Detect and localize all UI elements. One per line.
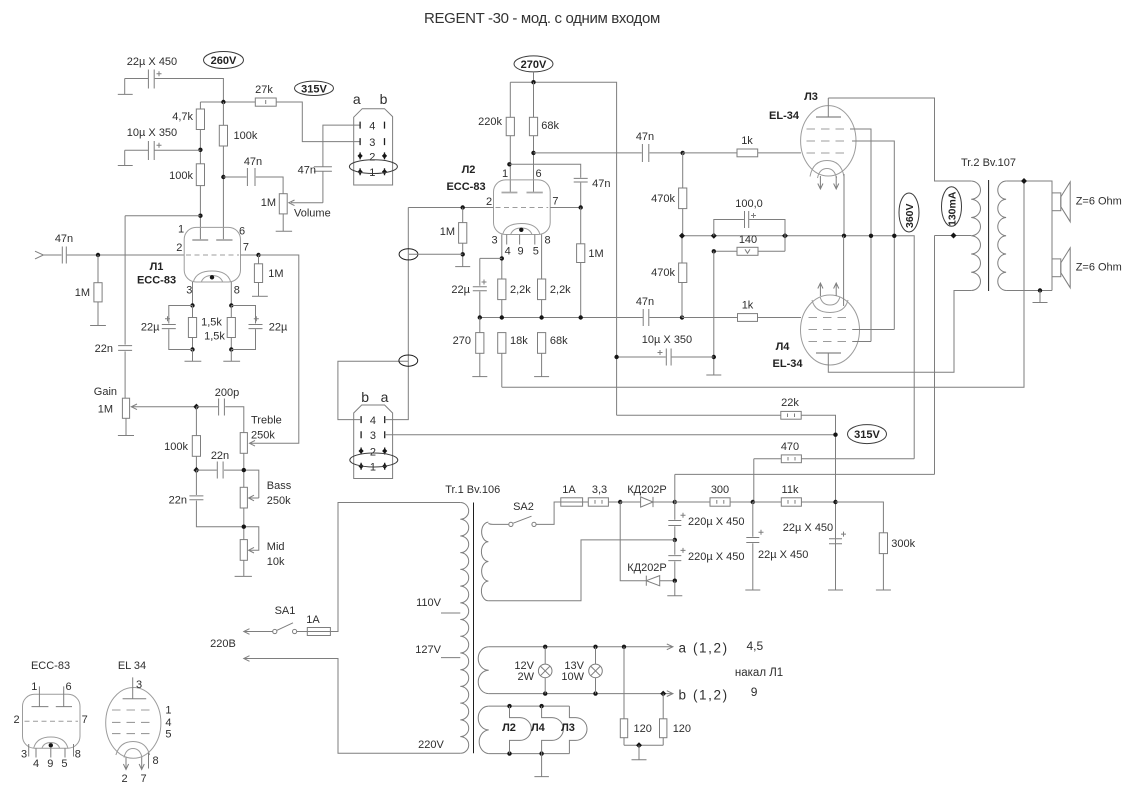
- svg-text:b (1,2): b (1,2): [679, 688, 729, 703]
- spare EL34 heater arrows: [123, 758, 144, 770]
- junction tone mid node: [193, 467, 199, 473]
- svg-text:b: b: [361, 389, 369, 405]
- resistor 100k (left): [196, 164, 204, 186]
- pentode L3 envelope: [801, 106, 856, 176]
- ground for 22u input filter cap: [118, 79, 133, 95]
- junction 47n out: [221, 175, 225, 179]
- ground psu: [667, 581, 682, 596]
- svg-text:Л2: Л2: [502, 722, 516, 734]
- svg-text:2W: 2W: [518, 671, 535, 683]
- svg-text:6: 6: [66, 681, 72, 693]
- wire mains lead 2: [244, 656, 460, 754]
- diode KD202P lower: [646, 576, 659, 586]
- L1 cathode: [194, 271, 231, 282]
- wire bias rail: [682, 236, 914, 459]
- resistor 68k cathode: [541, 353, 543, 376]
- resistor 1M grid2: [258, 255, 260, 296]
- junction doubler in: [618, 500, 622, 504]
- cable ring upper: [399, 249, 418, 260]
- transformer Tr.1 heater winding a/b: [478, 647, 489, 694]
- svg-text:Mid: Mid: [267, 541, 285, 553]
- node 260V: [204, 52, 244, 69]
- svg-text:SA1: SA1: [275, 605, 296, 617]
- wire shield to ring: [409, 253, 463, 255]
- capacitor 22u L2: [473, 258, 487, 317]
- capacitor 10u X 350: [125, 141, 201, 160]
- heater ellipse lower socket: [350, 453, 398, 467]
- pentode L4 envelope: [801, 295, 860, 365]
- junction 260V rail: [221, 100, 225, 104]
- svg-text:7: 7: [243, 242, 249, 254]
- wire L4 g3: [853, 329, 894, 331]
- svg-text:Л2: Л2: [462, 164, 476, 176]
- potentiometer Mid 10k: [240, 540, 247, 561]
- junction anode6: [531, 151, 535, 155]
- svg-text:110V: 110V: [416, 597, 442, 609]
- resistor 1M pin7 L2: [580, 208, 582, 318]
- svg-text:9: 9: [751, 685, 758, 699]
- heater loop L3: [569, 706, 587, 754]
- wire pin7 L2: [550, 207, 581, 209]
- pin 4 marks lower socket: [361, 416, 385, 423]
- svg-text:4: 4: [369, 121, 375, 133]
- capacitor 47n to socket pin4: [314, 125, 360, 203]
- L3 cathode: [810, 161, 844, 179]
- L1 anode bars: [192, 239, 232, 241]
- svg-text:27k: 27k: [255, 84, 273, 96]
- wire 120s join: [624, 744, 663, 746]
- svg-text:47n: 47n: [244, 156, 262, 168]
- wire socket 4b loop: [338, 361, 408, 419]
- wire socket 4a to L2 grid: [385, 208, 409, 420]
- resistor 2,2k right: [541, 235, 543, 318]
- svg-text:22k: 22k: [781, 397, 799, 409]
- junction grid L3 node: [681, 151, 685, 155]
- svg-text:120: 120: [673, 723, 691, 735]
- svg-text:300k: 300k: [891, 538, 915, 550]
- svg-text:22µ: 22µ: [269, 322, 288, 334]
- svg-text:Z=6 Ohm: Z=6 Ohm: [1076, 262, 1122, 274]
- node 315V lower: [848, 425, 887, 444]
- diode KD202P upper: [620, 501, 675, 503]
- spare EL34 cathode: [116, 742, 150, 758]
- wire socket 3a line to 315V node: [385, 434, 836, 436]
- svg-text:22µ: 22µ: [141, 322, 160, 334]
- svg-text:4,5: 4,5: [747, 639, 764, 653]
- junction anode1 branch: [198, 214, 202, 218]
- svg-text:4: 4: [33, 758, 39, 770]
- L3 grid rows: [807, 128, 851, 130]
- L1 grid dashed: [186, 254, 239, 256]
- svg-text:470k: 470k: [651, 193, 675, 205]
- pin 1 marks lower socket: [361, 463, 385, 470]
- wire cathode bypass stub: [480, 257, 502, 259]
- svg-text:1: 1: [178, 224, 184, 236]
- svg-text:2,2k: 2,2k: [510, 284, 531, 296]
- ground for 10u cap: [118, 150, 133, 165]
- junction cathode rail L3: [842, 234, 846, 238]
- spare ECC-83 cathode: [34, 737, 68, 748]
- L4 cathode: [812, 297, 848, 313]
- svg-text:127V: 127V: [415, 644, 441, 656]
- svg-text:1: 1: [370, 462, 376, 474]
- svg-text:2: 2: [121, 773, 127, 785]
- svg-text:EL-34: EL-34: [769, 110, 800, 122]
- L4 grid rows: [809, 317, 853, 319]
- svg-text:315V: 315V: [854, 429, 880, 441]
- svg-text:2: 2: [13, 714, 19, 726]
- resistor 22k: [617, 415, 836, 590]
- svg-text:22n: 22n: [211, 450, 229, 462]
- svg-text:260V: 260V: [211, 55, 237, 67]
- L4 anode: [816, 352, 841, 354]
- junction grid L4 node: [680, 315, 684, 319]
- svg-text:7: 7: [140, 773, 146, 785]
- svg-text:3,3: 3,3: [592, 484, 607, 496]
- svg-text:47n: 47n: [592, 178, 610, 190]
- transformer Tr.1 heater winding 2: [478, 706, 489, 754]
- L2 anode bars: [502, 192, 543, 194]
- svg-text:47n: 47n: [298, 165, 316, 177]
- capacitor 220u X 450 upper: [668, 502, 681, 540]
- pin 1 marks: [360, 168, 384, 175]
- resistor 1M input: [97, 255, 99, 326]
- svg-text:220k: 220k: [478, 116, 502, 128]
- svg-text:1A: 1A: [306, 614, 320, 626]
- svg-text:Л4: Л4: [531, 722, 546, 734]
- node 315V: [295, 81, 334, 95]
- svg-text:9: 9: [518, 246, 524, 258]
- wire 140 to ground: [706, 251, 721, 375]
- svg-text:Bass: Bass: [267, 480, 292, 492]
- connector socket b/a (lower): [354, 405, 393, 479]
- ground 1M grid2: [252, 295, 268, 297]
- wire pin7 to treble wiper: [250, 255, 299, 446]
- resistor 120 left: [623, 647, 625, 746]
- svg-text:22µ X 450: 22µ X 450: [127, 56, 177, 68]
- capacitor 22u cathode left: [162, 306, 193, 350]
- svg-text:Л3: Л3: [804, 91, 818, 103]
- wire L4 g2: [853, 341, 871, 343]
- spare EL34 pin 8: [148, 753, 150, 769]
- svg-text:1M: 1M: [268, 268, 283, 280]
- resistor 100k tone: [195, 407, 197, 470]
- capacitor 200p: [196, 399, 243, 433]
- transformer Tr.2 primary winding: [971, 181, 980, 291]
- resistor 18k: [501, 353, 503, 387]
- svg-text:Л3: Л3: [561, 722, 575, 734]
- svg-text:140: 140: [739, 234, 757, 246]
- svg-text:2,2k: 2,2k: [550, 284, 571, 296]
- svg-text:22n: 22n: [95, 343, 113, 355]
- svg-text:220В: 220В: [210, 638, 236, 650]
- wire heater b line: [489, 691, 673, 697]
- wire grid2 to pin7: [241, 254, 259, 256]
- svg-text:1M: 1M: [440, 226, 455, 238]
- capacitor 47n coupling lower: [643, 309, 649, 326]
- wire 270V rail: [510, 72, 616, 415]
- ground cap right: [828, 589, 843, 591]
- capacitor 22n gain chain: [118, 216, 132, 399]
- svg-text:КД202Р: КД202Р: [627, 484, 667, 496]
- wire coupling line to L3: [534, 152, 683, 154]
- svg-text:68k: 68k: [541, 120, 559, 132]
- speaker 1: [1052, 193, 1061, 211]
- resistor 1M grid L2: [462, 208, 464, 267]
- heater ellipse upper socket: [349, 160, 397, 174]
- ground gain pot: [118, 418, 134, 435]
- svg-text:Tr.1 Bv.106: Tr.1 Bv.106: [445, 484, 500, 496]
- L2 cathode: [503, 224, 540, 235]
- svg-text:5: 5: [61, 758, 67, 770]
- wire pin3 cathode: [501, 235, 503, 280]
- resistor 68k plate: [533, 82, 535, 192]
- potentiometer Volume 1M: [279, 194, 287, 214]
- svg-text:7: 7: [82, 714, 88, 726]
- triode L2 envelope: [494, 180, 551, 235]
- svg-text:10µ X 350: 10µ X 350: [127, 127, 177, 139]
- svg-text:4: 4: [370, 415, 376, 427]
- L2 heater pin stubs: [507, 235, 535, 245]
- resistor 470 screen: [754, 459, 914, 502]
- wire feedback line: [502, 181, 1024, 387]
- svg-text:10k: 10k: [267, 556, 285, 568]
- svg-text:130mA: 130mA: [947, 191, 959, 226]
- capacitor 22u X 450 left: [746, 502, 759, 590]
- svg-text:200p: 200p: [215, 387, 239, 399]
- L3 heater arrows: [818, 176, 839, 189]
- spare EL34 envelope: [106, 688, 161, 759]
- svg-text:5: 5: [533, 246, 539, 258]
- svg-text:a: a: [381, 389, 389, 405]
- svg-text:a: a: [353, 91, 361, 107]
- wire heater rail bottom: [489, 753, 570, 755]
- svg-text:3: 3: [21, 749, 27, 761]
- svg-text:3: 3: [369, 137, 375, 149]
- spare EL34 grid rows: [112, 709, 154, 711]
- wire L4 anode to transformer: [828, 291, 971, 373]
- svg-text:47n: 47n: [636, 131, 654, 143]
- transformer Tr.1 primary winding: [460, 503, 468, 754]
- svg-text:1M: 1M: [75, 287, 90, 299]
- capacitor 47n coupling upper: [642, 144, 648, 162]
- svg-text:Gain: Gain: [94, 386, 117, 398]
- triode L1 envelope: [184, 227, 240, 282]
- svg-text:Treble: Treble: [251, 415, 282, 427]
- svg-text:2: 2: [369, 151, 375, 163]
- svg-text:ECC-83: ECC-83: [31, 660, 70, 672]
- svg-text:4,7k: 4,7k: [172, 111, 193, 123]
- input arrow: [35, 251, 62, 259]
- capacitor 47n L2 local: [574, 178, 588, 207]
- resistor 300: [675, 501, 753, 503]
- wire anode1 chain: [199, 102, 201, 240]
- L3 anode: [816, 116, 841, 118]
- svg-text:120: 120: [634, 723, 652, 735]
- lamp 12V 2W: [544, 647, 546, 694]
- capacitor 220u X 450 lower: [668, 540, 681, 581]
- svg-text:REGENT -30 - мод. с одним вход: REGENT -30 - мод. с одним входом: [424, 10, 660, 27]
- fuse 1A mains: [307, 628, 330, 636]
- svg-text:470: 470: [781, 441, 799, 453]
- pin 2 marks: [360, 152, 384, 159]
- spare ECC-83 pins: [29, 744, 74, 758]
- svg-text:Л4: Л4: [776, 341, 791, 353]
- L4 heater arrows: [818, 283, 839, 296]
- spare pinout ECC-83 envelope: [23, 694, 81, 748]
- wire L3 g3: [852, 141, 894, 330]
- svg-text:100k: 100k: [164, 441, 188, 453]
- capacitor 100,0: [714, 211, 785, 251]
- wire plate to 47n feedback: [509, 164, 580, 178]
- svg-text:3: 3: [491, 235, 497, 247]
- svg-text:300: 300: [711, 484, 729, 496]
- svg-text:3: 3: [186, 285, 192, 297]
- resistor 140: [714, 250, 785, 252]
- L2 grid dashed: [496, 207, 549, 209]
- svg-text:10µ X 350: 10µ X 350: [642, 334, 692, 346]
- svg-text:47n: 47n: [636, 296, 654, 308]
- wire secondary top to SA2: [488, 523, 508, 526]
- ground volume pot: [276, 214, 292, 231]
- wire raw B+ riser: [674, 474, 676, 502]
- svg-text:4: 4: [165, 717, 171, 729]
- potentiometer Treble 250k: [240, 433, 247, 454]
- ground 68k: [534, 376, 549, 378]
- resistor 470k lower: [681, 236, 683, 318]
- cable ring lower: [399, 355, 418, 366]
- svg-text:3: 3: [370, 430, 376, 442]
- wire treble-bass vertical: [243, 453, 245, 487]
- wire doubler mid to secondary bottom: [488, 540, 674, 601]
- capacitor 22u cathode right: [231, 306, 262, 350]
- wire secondary top: [1006, 181, 1052, 291]
- wire grid L2 left: [408, 207, 493, 209]
- wire 260V rail top: [125, 79, 360, 142]
- ground 300k: [876, 589, 891, 591]
- svg-text:1k: 1k: [742, 300, 754, 312]
- resistor 1k upper: [683, 152, 801, 154]
- junction cap bottom: [673, 579, 677, 583]
- transformer Tr.1 HV secondary: [481, 522, 488, 601]
- svg-text:5: 5: [165, 729, 171, 741]
- svg-text:22n: 22n: [169, 495, 187, 507]
- resistor 100k (second): [219, 125, 227, 146]
- svg-text:18k: 18k: [510, 335, 528, 347]
- svg-text:6: 6: [535, 168, 541, 180]
- svg-text:8: 8: [234, 285, 240, 297]
- svg-text:11k: 11k: [782, 484, 799, 496]
- svg-text:22µ: 22µ: [451, 284, 470, 296]
- svg-text:1M: 1M: [98, 404, 113, 416]
- svg-text:1: 1: [502, 168, 508, 180]
- ground input 1M: [90, 325, 106, 327]
- svg-text:68k: 68k: [550, 335, 568, 347]
- svg-text:100,0: 100,0: [735, 198, 763, 210]
- svg-text:SA2: SA2: [513, 501, 534, 513]
- svg-text:EL 34: EL 34: [118, 660, 146, 672]
- svg-text:1A: 1A: [562, 484, 576, 496]
- svg-text:470k: 470k: [651, 267, 675, 279]
- potentiometer Bass 250k: [240, 487, 247, 508]
- junction raw B+: [673, 500, 677, 504]
- wire secondary bottom: [1006, 290, 1052, 292]
- svg-text:220V: 220V: [418, 739, 444, 751]
- grounds cathode L1: [185, 350, 241, 362]
- transformer Tr.2 core: [988, 180, 990, 291]
- svg-text:220µ X 450: 220µ X 450: [688, 551, 745, 563]
- svg-text:1M: 1M: [588, 248, 603, 260]
- junction filter node 1: [751, 500, 755, 504]
- junction filter node 2: [833, 500, 837, 504]
- junction gain node: [193, 404, 199, 410]
- svg-text:1: 1: [369, 167, 375, 179]
- wire doubler return: [620, 502, 646, 581]
- junction 315V node: [833, 433, 837, 437]
- potentiometer Gain 1M: [122, 398, 129, 418]
- speaker 2: [1052, 259, 1061, 277]
- svg-text:a (1,2): a (1,2): [679, 641, 729, 656]
- capacitor 47n input: [62, 247, 184, 264]
- junction 10u node: [198, 148, 202, 152]
- ground 120s: [632, 745, 647, 760]
- svg-text:EL-34: EL-34: [773, 358, 804, 370]
- transformer Tr.2 secondary winding: [998, 181, 1006, 291]
- resistor 11k: [753, 501, 836, 503]
- L1 cathode wires pins 3 8: [193, 282, 232, 306]
- resistor 1,5k right: [230, 306, 232, 350]
- fuse 1A psu: [561, 498, 583, 506]
- svg-text:Tr.2 Bv.107: Tr.2 Bv.107: [961, 157, 1016, 169]
- svg-text:8: 8: [75, 749, 81, 761]
- resistor 27k: [255, 98, 276, 106]
- svg-text:ECC-83: ECC-83: [137, 275, 176, 287]
- capacitor 22u X 450: [148, 70, 154, 89]
- resistor 270: [479, 318, 481, 377]
- svg-text:b: b: [380, 91, 388, 107]
- svg-text:22µ X 450: 22µ X 450: [783, 522, 833, 534]
- junction input grid: [96, 253, 100, 257]
- lamp 13V 10W: [595, 647, 597, 694]
- switch SA2: [509, 522, 513, 526]
- resistor 1,5k left: [192, 306, 194, 350]
- capacitor 10u X 350 lower: [617, 349, 714, 366]
- wire L3 cathode to rail: [843, 174, 845, 236]
- svg-text:270: 270: [453, 335, 471, 347]
- wire heater a line: [489, 644, 673, 650]
- transformer Tr.1 core: [473, 503, 475, 754]
- svg-text:накал Л1: накал Л1: [735, 667, 783, 679]
- resistor 120 right: [662, 694, 664, 746]
- svg-text:9: 9: [47, 758, 53, 770]
- svg-text:Л1: Л1: [150, 261, 164, 273]
- svg-text:1: 1: [31, 681, 37, 693]
- svg-text:47n: 47n: [55, 233, 73, 245]
- junction pin7: [256, 253, 260, 257]
- pin 2 marks lower socket: [361, 448, 385, 455]
- resistor 3,3: [583, 501, 621, 503]
- capacitor 22n lower: [189, 470, 258, 550]
- svg-text:2: 2: [176, 242, 182, 254]
- wire anode2 chain: [222, 102, 224, 240]
- spare EL34 anode: [123, 677, 147, 698]
- svg-text:Volume: Volume: [294, 208, 331, 220]
- tap 127V: [441, 657, 460, 659]
- capacitor 22u X 450 right: [829, 539, 842, 544]
- heater loop L4: [542, 706, 564, 754]
- wire L4 cathode to rail: [843, 236, 845, 306]
- wire gain branch: [125, 215, 200, 217]
